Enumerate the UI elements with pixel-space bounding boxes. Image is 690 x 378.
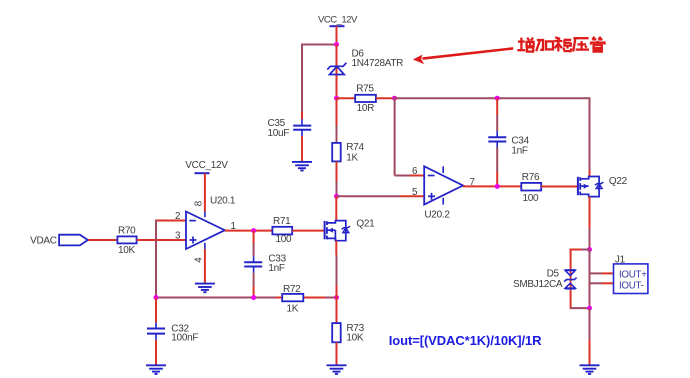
svg-text:6: 6 (412, 166, 418, 177)
wire bottom rail (156, 297, 254, 299)
transistor Q22 nmos (577, 177, 579, 195)
svg-text:R74: R74 (346, 142, 364, 153)
svg-text:VDAC: VDAC (30, 235, 57, 246)
svg-text:VCC_12V: VCC_12V (318, 15, 358, 26)
svg-text:1nF: 1nF (268, 263, 285, 274)
transistor Q21 nmos (335, 196, 337, 220)
svg-text:2: 2 (175, 211, 180, 222)
wire top-left branch to C35 (301, 44, 337, 46)
wire Q22 source down (589, 197, 591, 228)
tvs diode D5 SMBJ12CA (570, 269, 572, 291)
zener diode D6 (327, 63, 346, 70)
red annotation text 增加稳压管 (517, 37, 604, 52)
node junction D6/R75/R74 (334, 96, 339, 101)
svg-text:J1: J1 (615, 254, 626, 265)
svg-text:10uF: 10uF (268, 128, 290, 139)
svg-text:3: 3 (175, 231, 181, 242)
node junction rail/C32 (154, 295, 159, 300)
node junction R75/feedback (392, 96, 397, 101)
svg-text:IOUT+: IOUT+ (619, 269, 647, 280)
op-amp U20.1 (186, 212, 225, 250)
resistor R72 1K (282, 294, 303, 301)
svg-text:IOUT-: IOUT- (619, 280, 644, 291)
node junction rail/Q21 source/R73 (334, 295, 339, 300)
svg-text:1K: 1K (346, 153, 358, 164)
connector J1 (614, 264, 648, 294)
svg-text:10K: 10K (118, 245, 136, 256)
wire output pin1 (225, 230, 273, 232)
svg-text:R76: R76 (522, 172, 540, 183)
svg-text:R75: R75 (356, 84, 374, 95)
svg-text:10R: 10R (357, 103, 375, 114)
svg-text:1N4728ATR: 1N4728ATR (352, 58, 404, 69)
wire IOUT- stub (590, 282, 603, 284)
resistor R75 10R (337, 97, 356, 99)
ground right (580, 364, 600, 366)
svg-text:U20.2: U20.2 (424, 210, 450, 221)
wire top rail down to Q22 drain (589, 98, 591, 170)
node junction top rail / C34 (495, 96, 500, 101)
resistor R71 100 (272, 227, 292, 235)
wire R75 to C34/Q22 top rail (395, 97, 591, 99)
red annotation arrow (423, 48, 514, 58)
ground below C32 (146, 364, 166, 366)
svg-text:8: 8 (193, 200, 204, 206)
wire IOUT+ stub (590, 272, 603, 274)
wire D5 branch top (570, 249, 581, 251)
capacitor C33 1nF (253, 231, 255, 243)
wire D5 branch bottom (570, 291, 572, 309)
resistor R73 10K (336, 298, 338, 324)
svg-text:4: 4 (193, 257, 204, 263)
svg-text:1nF: 1nF (511, 146, 528, 157)
node junction pin7/C34 (495, 184, 500, 189)
svg-text:10K: 10K (346, 332, 364, 343)
svg-text:D5: D5 (547, 269, 560, 280)
op-amp U20.2 (424, 166, 463, 204)
svg-text:Iout=[(VDAC*1K)/10K]/1R: Iout=[(VDAC*1K)/10K]/1R (389, 333, 542, 348)
resistor R70 10K (88, 239, 118, 241)
svg-text:5: 5 (412, 187, 418, 198)
svg-text:100nF: 100nF (171, 333, 198, 344)
ground below U20.1 pin4 (204, 249, 206, 284)
svg-text:U20.1: U20.1 (210, 196, 236, 207)
ground below C35 (292, 161, 312, 163)
svg-text:R71: R71 (273, 216, 291, 227)
svg-text:R70: R70 (118, 225, 136, 236)
resistor R76 100 (521, 183, 541, 191)
svg-text:100: 100 (276, 234, 293, 245)
capacitor C35 10uF (301, 119, 303, 126)
svg-text:1K: 1K (287, 304, 299, 315)
capacitor C34 1nF (496, 98, 498, 115)
svg-text:100: 100 (523, 193, 540, 204)
svg-text:VCC_12V: VCC_12V (185, 160, 228, 171)
svg-text:SMBJ12CA: SMBJ12CA (513, 279, 563, 290)
node junction VCC/D6/C35 (334, 42, 339, 47)
svg-text:R72: R72 (283, 284, 301, 295)
wire pin2 feedback from bottom rail (155, 220, 187, 222)
wire feedback down to pin6 (394, 97, 396, 175)
ground below R73 (327, 364, 347, 366)
node junction R74/Q21 drain/pin5 (334, 194, 339, 199)
node junction rail/C33 (251, 295, 256, 300)
wire output pin7 (463, 185, 521, 187)
capacitor C32 100nF (155, 298, 157, 323)
wire D6 anode to R75 node (336, 45, 338, 99)
node junction D5/gnd (587, 306, 592, 311)
svg-text:Q22: Q22 (609, 176, 628, 187)
wire pin5 line (337, 195, 401, 197)
wire Q22 source to IOUT/gnd (589, 250, 591, 309)
svg-text:C35: C35 (268, 118, 286, 129)
node junction pin1/C33 (251, 228, 256, 233)
resistor R74 1K (336, 98, 338, 125)
svg-text:Q21: Q21 (356, 219, 375, 230)
node junction Q22 source/D5/J1 (587, 247, 592, 252)
